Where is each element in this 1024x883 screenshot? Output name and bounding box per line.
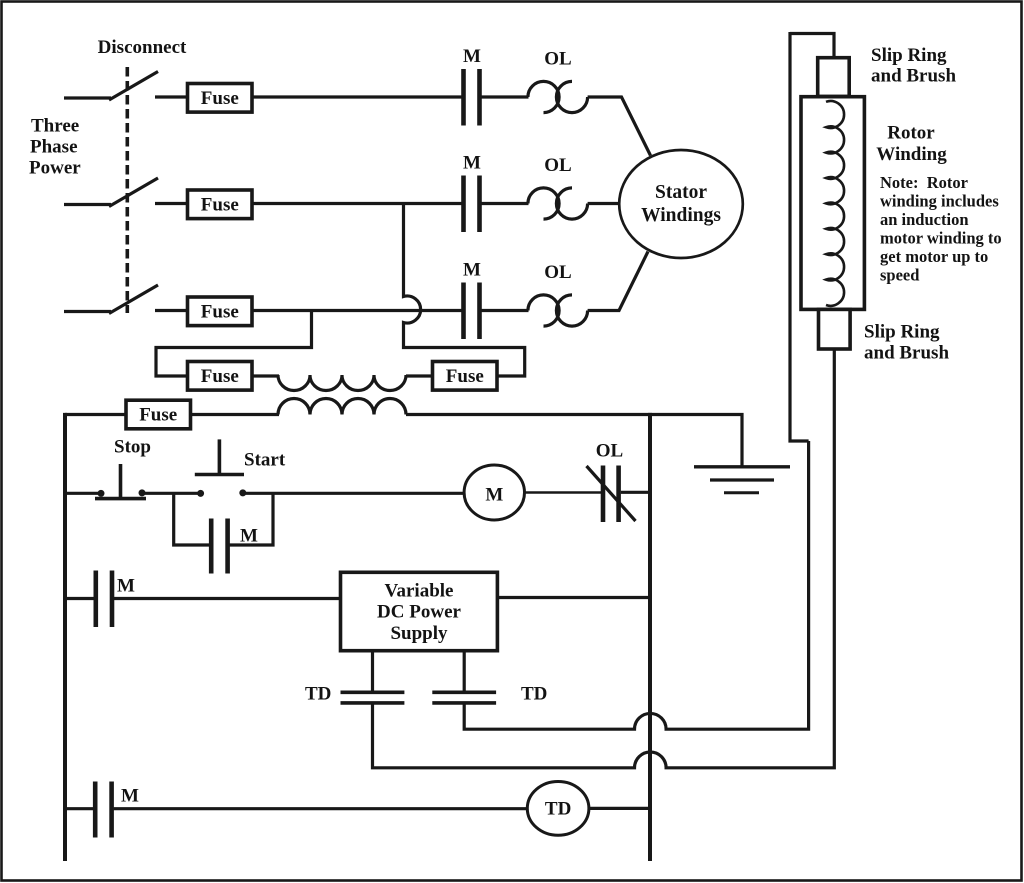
- wire tap from phase 2 down to fuse F5 with crossover hop: [404, 204, 525, 377]
- wire TD2 to rotor wire with hop over right rail: [464, 441, 808, 729]
- svg-text:M: M: [485, 485, 503, 506]
- overload OL3: [528, 262, 588, 326]
- svg-text:Winding: Winding: [876, 144, 947, 165]
- svg-text:Note: Rotor: Note: Rotor: [880, 173, 968, 192]
- wire timer TD to right rail: [589, 807, 650, 810]
- svg-text:DC Power: DC Power: [377, 602, 461, 623]
- svg-text:OL: OL: [544, 155, 571, 176]
- timer coil TD: [527, 782, 589, 836]
- slip ring and brush (top): [818, 58, 850, 97]
- svg-text:Fuse: Fuse: [201, 88, 239, 109]
- wire tap from phase 3 down-left to fuse F4: [156, 311, 312, 377]
- contact M3: [463, 260, 481, 340]
- svg-text:Start: Start: [244, 450, 286, 471]
- wire OL2 to stator: [588, 202, 620, 205]
- wire contact M2 to overload OL2: [482, 202, 529, 205]
- wire rail to stop button: [65, 492, 99, 495]
- wire slip ring to right side drop: [790, 34, 834, 59]
- wire left rail top to fuse F6: [65, 413, 127, 416]
- wire contact M4 to power supply: [114, 597, 341, 600]
- overload OL2: [528, 155, 588, 219]
- svg-text:motor winding to: motor winding to: [880, 229, 1002, 248]
- wire coil M to overload contact: [525, 491, 603, 493]
- svg-text:speed: speed: [880, 266, 919, 285]
- svg-text:Phase: Phase: [30, 137, 78, 158]
- fuse F6 (control circuit fuse): [126, 400, 191, 429]
- wire start to coil M: [244, 492, 465, 495]
- switch SW3 (phase 3 disconnect): [64, 285, 189, 314]
- transformer primary coil: [278, 375, 406, 391]
- svg-text:Fuse: Fuse: [201, 302, 239, 323]
- svg-text:an induction: an induction: [880, 210, 969, 229]
- motor stator windings: [619, 150, 743, 258]
- transformer secondary coil: [278, 399, 406, 415]
- wire fuse F3 to contact M3: [252, 309, 462, 312]
- coil M: [464, 465, 524, 520]
- note text: [880, 173, 1002, 285]
- slip ring and brush (bottom): [819, 309, 851, 349]
- variable DC power supply: [341, 572, 498, 650]
- wire OL3 to stator: [588, 252, 648, 311]
- rotor body: [801, 97, 864, 310]
- fuse F3: [188, 297, 253, 326]
- wire power supply to contact TD1: [371, 651, 374, 691]
- wire contact M1 to overload OL1: [482, 95, 529, 98]
- svg-text:Power: Power: [29, 158, 81, 179]
- wire fuse F2 to contact M2: [252, 202, 462, 205]
- svg-text:OL: OL: [544, 49, 571, 70]
- overload contact OL (NC): [587, 441, 636, 523]
- switch SW1 (phase 1 disconnect): [64, 72, 189, 101]
- svg-text:TD: TD: [545, 799, 571, 820]
- svg-text:Fuse: Fuse: [201, 366, 239, 387]
- svg-text:Variable: Variable: [385, 581, 454, 602]
- svg-text:M: M: [463, 153, 481, 174]
- contact M2: [463, 153, 481, 233]
- wire primary coil to fuse F5: [406, 374, 434, 377]
- svg-text:Fuse: Fuse: [139, 405, 177, 426]
- auxiliary contact M (seal-in branch): [174, 493, 273, 573]
- svg-text:TD: TD: [521, 684, 547, 705]
- wire overload to right rail: [621, 491, 650, 494]
- wire stop to start: [144, 492, 199, 495]
- wire OL1 to stator: [588, 97, 651, 156]
- svg-text:Fuse: Fuse: [446, 366, 484, 387]
- svg-text:M: M: [121, 786, 139, 807]
- fuse F1: [188, 84, 253, 113]
- svg-text:OL: OL: [596, 441, 623, 462]
- svg-text:Stator: Stator: [655, 182, 707, 203]
- wire TD1 to bottom slip ring with hop over right rail: [373, 349, 835, 768]
- contact TD1: [305, 684, 404, 705]
- wire right side vertical with jog: [790, 32, 809, 441]
- svg-text:Windings: Windings: [641, 205, 721, 226]
- wire power supply to contact TD2: [463, 651, 466, 691]
- contact TD2: [432, 684, 547, 705]
- left rail: [63, 413, 67, 861]
- wire power supply to right rail: [497, 596, 650, 599]
- right rail: [648, 413, 652, 861]
- fuse F2: [188, 190, 253, 219]
- wire rail to contact M5: [65, 807, 94, 810]
- disconnect dashed line: [126, 67, 130, 313]
- start pushbutton (NO): [195, 439, 247, 497]
- svg-text:TD: TD: [305, 684, 331, 705]
- svg-text:M: M: [117, 576, 135, 597]
- svg-text:Stop: Stop: [114, 437, 151, 458]
- contact M1: [463, 46, 481, 126]
- svg-text:M: M: [463, 260, 481, 281]
- svg-text:get motor up to: get motor up to: [880, 247, 988, 266]
- wire fuse F1 to contact M1: [252, 95, 462, 98]
- rotor winding coil: [826, 101, 844, 306]
- svg-text:Disconnect: Disconnect: [98, 37, 187, 58]
- wire rail to contact M4: [65, 597, 94, 600]
- svg-text:M: M: [240, 526, 258, 547]
- svg-text:Fuse: Fuse: [201, 195, 239, 216]
- svg-text:Rotor: Rotor: [887, 123, 935, 144]
- stop pushbutton (NC): [95, 464, 146, 499]
- wire contact M5 to timer TD: [114, 807, 528, 810]
- svg-text:M: M: [463, 46, 481, 67]
- wire contact M3 to overload OL3: [482, 309, 529, 312]
- fuse F4 (transformer primary left): [188, 362, 253, 391]
- fuse F5 (transformer primary right): [433, 362, 498, 391]
- wire fuse F4 to primary coil: [252, 374, 279, 377]
- svg-text:winding includes: winding includes: [880, 192, 999, 211]
- wire fuse F6 through secondary to ground drop: [191, 415, 743, 468]
- overload OL1: [528, 49, 588, 113]
- svg-text:and Brush: and Brush: [871, 66, 956, 87]
- contact M5: [95, 782, 139, 838]
- svg-text:Slip Ring: Slip Ring: [871, 45, 947, 66]
- svg-text:Slip Ring: Slip Ring: [864, 322, 940, 343]
- svg-text:OL: OL: [544, 262, 571, 283]
- svg-text:Three: Three: [31, 116, 79, 137]
- svg-text:and Brush: and Brush: [864, 343, 949, 364]
- ground: [694, 467, 790, 493]
- svg-text:Supply: Supply: [390, 623, 448, 644]
- switch SW2 (phase 2 disconnect): [64, 178, 189, 207]
- contact M4: [96, 571, 135, 628]
